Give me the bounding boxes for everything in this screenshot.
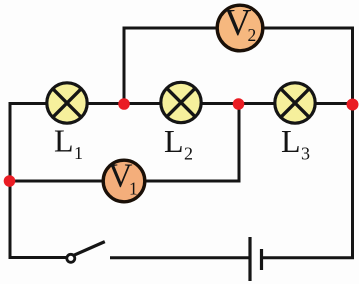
node D junction dot (right) xyxy=(347,99,359,111)
wire right vertical xyxy=(351,27,354,260)
node C junction dot (left) xyxy=(4,175,16,187)
wire top branch from node A up xyxy=(123,28,126,104)
svg-text:2: 2 xyxy=(184,144,193,164)
switch S1 pivot xyxy=(67,254,75,262)
wire main lamp line xyxy=(10,102,353,105)
wire bottom left to switch xyxy=(9,256,67,259)
wire branch node B down to V1 line xyxy=(238,104,241,183)
svg-text:1: 1 xyxy=(129,179,138,199)
lamp L1 xyxy=(47,83,87,123)
node A junction dot xyxy=(118,98,130,110)
switch S1 lever xyxy=(74,242,105,256)
svg-text:L: L xyxy=(281,123,301,159)
node B junction dot xyxy=(233,98,245,110)
voltmeter V2 xyxy=(217,2,263,51)
svg-text:L: L xyxy=(54,123,74,159)
voltmeter V1 xyxy=(103,158,145,202)
wire switch to battery xyxy=(110,256,249,259)
svg-text:1: 1 xyxy=(74,143,83,163)
lamp L2 xyxy=(161,82,201,122)
lamp L3 xyxy=(275,83,315,123)
wire battery to right vertical xyxy=(262,256,355,259)
svg-text:L: L xyxy=(164,123,184,159)
battery short plate (-) xyxy=(260,249,263,270)
svg-text:3: 3 xyxy=(301,144,310,164)
svg-text:2: 2 xyxy=(248,25,257,45)
battery long plate (+) xyxy=(248,237,251,281)
wire left vertical xyxy=(9,102,12,259)
wire V1 line xyxy=(10,180,239,183)
wire top horizontal to V2 and right xyxy=(123,27,355,30)
